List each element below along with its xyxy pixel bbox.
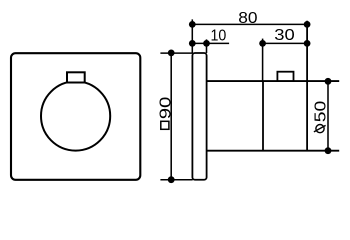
dim dot 10 left [189, 40, 196, 47]
front square plate [11, 53, 140, 180]
svg-text:80: 80 [238, 10, 257, 27]
dim dot 10 right [203, 40, 210, 47]
dim line 30 [260, 42, 309, 44]
svg-text:10: 10 [211, 28, 227, 45]
dim dot square90 bottom [168, 176, 175, 183]
dim 90 extension top [160, 52, 192, 54]
knob tab side [277, 72, 293, 81]
dim dot 80 left [189, 21, 196, 28]
dim 80 extension left [191, 19, 193, 53]
knob cylinder right edge [306, 21, 308, 151]
knob cylinder top edge [207, 80, 340, 82]
knob circle [41, 81, 110, 150]
knob tab front [67, 72, 85, 82]
dim dot 30 right [304, 40, 311, 47]
svg-text:30: 30 [274, 27, 295, 44]
dim dot 30 left [259, 40, 266, 47]
dim line 80 [190, 23, 309, 25]
label square90 symbol [161, 121, 169, 129]
svg-text:50: 50 [313, 101, 330, 123]
svg-text:90: 90 [158, 96, 175, 119]
dim dot 80 right [304, 21, 311, 28]
dim 30 extension left [262, 39, 264, 81]
dim line 10 [192, 42, 229, 44]
label dia symbol [314, 125, 326, 133]
dim dot dia50 top [325, 78, 332, 85]
dim dot square90 top [168, 50, 175, 57]
dim line square90 [170, 53, 172, 180]
dim line dia50 [327, 81, 329, 150]
dim 10 extension right [206, 39, 208, 53]
knob feature line [262, 81, 264, 151]
dim dot dia50 bottom [325, 147, 332, 154]
dim 90 extension bottom [160, 179, 192, 181]
knob cylinder bottom edge [207, 150, 340, 152]
side plate left edge [192, 53, 206, 180]
